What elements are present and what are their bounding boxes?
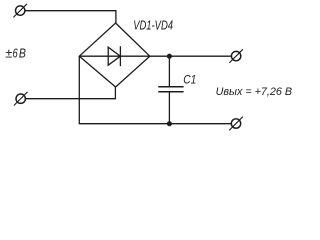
svg-text:C1: C1 [183,73,196,87]
svg-text:6: 6 [13,45,19,60]
svg-text:±: ± [5,45,12,60]
svg-text:VD1-VD4: VD1-VD4 [133,19,173,33]
svg-text:Uвых = +7,26 В: Uвых = +7,26 В [216,86,293,98]
svg-text:В: В [19,45,26,60]
